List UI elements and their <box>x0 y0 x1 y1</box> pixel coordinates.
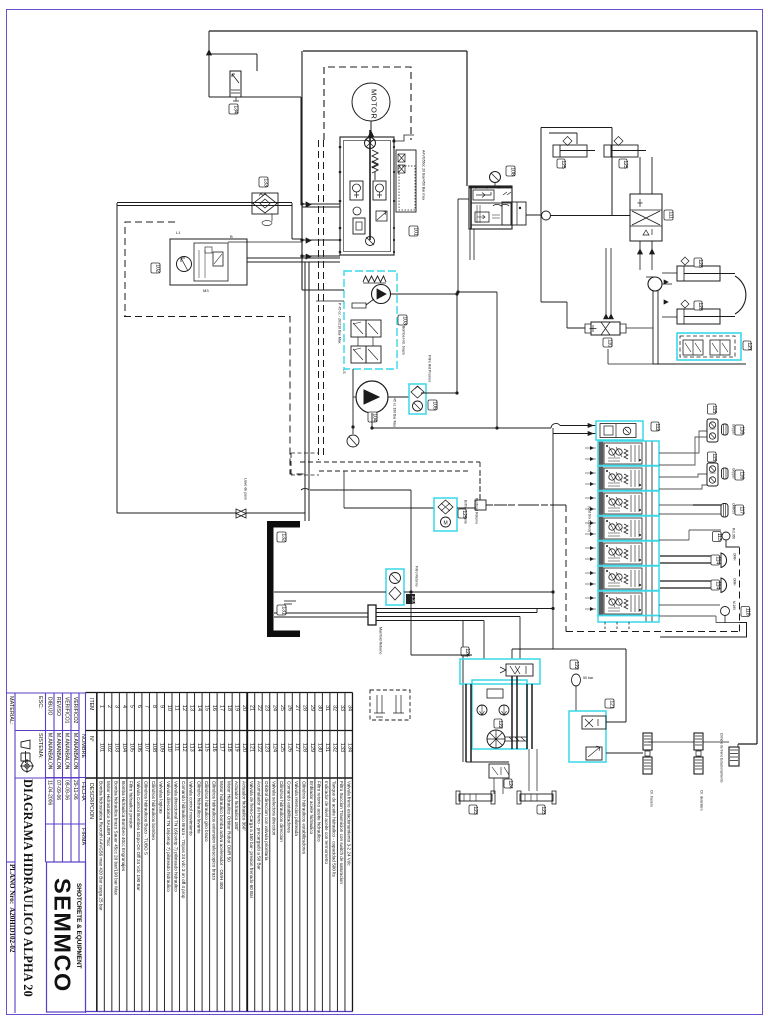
svg-text:128: 128 <box>697 259 703 268</box>
svg-text:103: 103 <box>402 316 408 325</box>
svg-text:128: 128 <box>697 302 703 311</box>
svg-text:M3: M3 <box>203 288 209 293</box>
svg-text:117: 117 <box>738 506 744 514</box>
svg-text:132: 132 <box>281 533 287 542</box>
svg-text:131: 131 <box>281 606 287 615</box>
svg-text:102: 102 <box>155 264 161 273</box>
svg-text:114: 114 <box>714 556 720 564</box>
svg-text:112: 112 <box>654 423 660 431</box>
svg-text:116: 116 <box>738 471 744 479</box>
svg-text:M: M <box>444 521 448 527</box>
svg-text:105: 105 <box>432 401 438 410</box>
svg-text:110: 110 <box>607 339 613 347</box>
svg-text:MOTOR: MOTOR <box>370 89 379 119</box>
svg-text:129: 129 <box>461 510 467 519</box>
svg-text:116: 116 <box>738 426 744 434</box>
svg-text:115: 115 <box>711 453 717 461</box>
svg-text:113: 113 <box>716 533 722 541</box>
svg-text:130: 130 <box>410 596 416 605</box>
svg-text:108: 108 <box>510 167 516 176</box>
svg-text:B: B <box>230 234 233 239</box>
svg-text:122: 122 <box>573 661 579 670</box>
svg-text:118: 118 <box>744 608 750 616</box>
svg-text:125: 125 <box>560 160 566 169</box>
svg-text:115: 115 <box>711 405 717 413</box>
svg-text:121: 121 <box>609 700 615 709</box>
svg-text:101: 101 <box>413 227 419 236</box>
svg-text:125: 125 <box>622 160 628 169</box>
svg-text:123: 123 <box>540 806 546 815</box>
svg-text:114: 114 <box>714 581 720 589</box>
svg-text:124: 124 <box>507 780 513 789</box>
svg-text:L1: L1 <box>176 230 181 235</box>
svg-text:122: 122 <box>497 720 503 729</box>
svg-text:133: 133 <box>263 178 269 187</box>
svg-text:123: 123 <box>472 806 478 815</box>
svg-text:50 bar: 50 bar <box>583 676 594 680</box>
svg-text:134: 134 <box>233 105 239 114</box>
svg-text:111: 111 <box>668 211 674 219</box>
svg-text:127: 127 <box>746 342 752 351</box>
